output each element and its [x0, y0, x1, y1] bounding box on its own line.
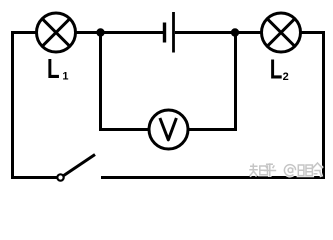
wire left side + bottom-left segment: [13, 33, 59, 178]
wire L2 to top-right corner, right side and bottom-right segment: [101, 33, 324, 178]
battery B1: [165, 12, 174, 53]
watermark 知乎 @明令: [249, 163, 322, 177]
wire voltmeter branch left: [101, 33, 150, 130]
label L2: [270, 53, 289, 84]
wire voltmeter branch right: [188, 33, 236, 130]
voltmeter V1: [149, 110, 188, 149]
label L1: [47, 53, 69, 84]
svg-text:L: L: [47, 53, 60, 84]
wire battery to L2: [175, 31, 262, 34]
node A junction dot: [96, 28, 104, 36]
svg-text:L: L: [270, 53, 283, 84]
svg-text:2: 2: [283, 71, 289, 83]
svg-text:1: 1: [62, 71, 68, 83]
lamp L1: [37, 13, 76, 52]
node B junction dot: [231, 28, 239, 36]
wire L1 to battery: [76, 31, 164, 34]
switch S1: [57, 155, 95, 181]
lamp L2: [262, 13, 301, 52]
